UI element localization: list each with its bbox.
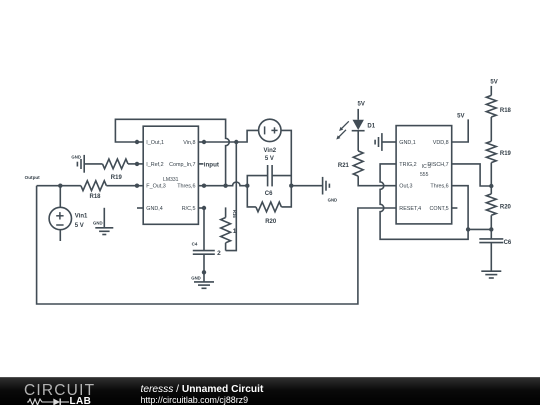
- svg-text:GND,4: GND,4: [146, 206, 162, 212]
- svg-text:CONT,5: CONT,5: [430, 206, 449, 212]
- capacitor C6 (right): [490, 229, 492, 239]
- wire block right node to ground: [291, 185, 322, 187]
- wire I_Out,1 top loop (line A): [115, 119, 229, 185]
- svg-text:GND: GND: [191, 275, 201, 280]
- capacitor C6 (middle): [267, 165, 269, 186]
- voltage source Vin1: [59, 186, 61, 208]
- node dot pin Thres,6: [202, 184, 206, 188]
- resistor R19 (left): [103, 159, 129, 169]
- wire R18-R19: [490, 117, 492, 141]
- resistor R19 (right): [486, 141, 496, 162]
- svg-text:I_Out,1: I_Out,1: [146, 140, 164, 146]
- svg-text:DISCH,7: DISCH,7: [427, 162, 448, 168]
- wire line B Vin8 to R16 bottom (hopped by Thres wire): [226, 142, 237, 251]
- resistor R21: [353, 151, 363, 176]
- svg-text:Vin1: Vin1: [75, 214, 88, 220]
- svg-text:Vin2: Vin2: [264, 148, 277, 154]
- svg-text:input: input: [204, 161, 219, 168]
- svg-text:GND: GND: [71, 154, 81, 159]
- svg-text:R18: R18: [500, 108, 512, 114]
- svg-text:LM331: LM331: [163, 177, 179, 183]
- ground (rotated left) at R19: [83, 155, 85, 173]
- LED emission arrows: [336, 121, 349, 139]
- svg-text:C6: C6: [504, 240, 512, 246]
- node dot pin F_Out,3: [135, 184, 139, 188]
- wire R/C,5 down to C4: [203, 208, 205, 251]
- node left of C6/R20 block: [245, 184, 249, 188]
- resistor R20 (right): [486, 194, 496, 215]
- svg-text:R/C,5: R/C,5: [182, 206, 196, 212]
- svg-text:RESET,4: RESET,4: [399, 206, 421, 212]
- node dot pin Vin,8: [202, 140, 206, 144]
- svg-text:Thres,6: Thres,6: [430, 184, 448, 190]
- svg-text:GND: GND: [328, 198, 338, 203]
- svg-text:R21: R21: [338, 163, 350, 169]
- wire R19-R20 with DISCH junction: [490, 163, 492, 194]
- resistor R16 (floating top): [225, 207, 227, 217]
- resistor R18 (left): [81, 181, 107, 191]
- footer url line: [141, 396, 249, 405]
- wire C4 to ground: [203, 254, 205, 272]
- wire gnd to R19: [84, 163, 102, 165]
- IC U2 LM331: [143, 126, 198, 224]
- resistor R18 (right): [490, 86, 492, 96]
- svg-text:Vin,8: Vin,8: [183, 140, 195, 146]
- node right of C6/R20 block: [289, 184, 293, 188]
- svg-text:5V: 5V: [457, 113, 464, 119]
- svg-text:2: 2: [217, 250, 221, 257]
- svg-text:D1: D1: [367, 123, 375, 129]
- IC IC3 555: [396, 126, 452, 224]
- wire C6 to ground: [490, 243, 492, 272]
- junction line A end on Thres wire: [223, 184, 227, 188]
- capacitor C4: [193, 250, 215, 252]
- svg-text:GND,1: GND,1: [399, 140, 415, 146]
- svg-text:R19: R19: [500, 151, 512, 157]
- wire R20 to bottom node: [490, 215, 492, 229]
- svg-text:5 V: 5 V: [265, 156, 274, 162]
- svg-text:R18: R18: [89, 194, 101, 200]
- LED D1: [357, 109, 359, 120]
- floating ground near Vin1: [103, 208, 105, 228]
- CircuitLab logo: [24, 383, 95, 399]
- node dot pin R/C,5: [202, 206, 206, 210]
- wire Thres,6 down to bottom node: [452, 186, 468, 230]
- svg-text:Out,3: Out,3: [399, 184, 412, 190]
- junction Thres node: [466, 227, 470, 231]
- wire Output node to R18: [37, 185, 81, 187]
- wire bottom branch to resistor R20: [247, 186, 256, 207]
- svg-text:C4: C4: [192, 241, 198, 246]
- junction line B on Vin8 wire: [234, 140, 238, 144]
- svg-text:R16: R16: [232, 210, 237, 218]
- wire DISCH,7 to chain node: [452, 164, 492, 186]
- wire Vin2+ to block right node: [281, 130, 291, 185]
- ground (rotated left) at GND,1: [382, 141, 396, 143]
- svg-text:5 V: 5 V: [75, 223, 84, 229]
- junction at ground: [202, 270, 206, 274]
- svg-text:5V: 5V: [358, 102, 365, 108]
- resistor R20 (middle): [256, 202, 282, 212]
- ground below C4: [203, 272, 205, 282]
- svg-text:GND: GND: [93, 221, 103, 226]
- svg-text:F_Out,3: F_Out,3: [146, 184, 165, 190]
- svg-text:1: 1: [233, 228, 237, 235]
- svg-text:R20: R20: [265, 219, 277, 225]
- voltage source Vin2: [259, 119, 281, 141]
- svg-text:555: 555: [420, 172, 429, 178]
- ground bottom right: [481, 270, 501, 272]
- svg-text:I_Ref,2: I_Ref,2: [146, 162, 163, 168]
- svg-text:5V: 5V: [490, 80, 497, 86]
- svg-text:R19: R19: [111, 175, 123, 181]
- wire Thres,6 to block left node with hop over line B: [204, 182, 247, 186]
- svg-text:TRIG,2: TRIG,2: [399, 162, 416, 168]
- pin stub CONT,5: [452, 207, 458, 209]
- svg-text:R20: R20: [500, 204, 512, 210]
- wire Output loop to RESET,4: [37, 186, 397, 304]
- junction Vin1 top: [58, 184, 62, 188]
- node dot pin I_Ref,2: [135, 162, 139, 166]
- node dot pin I_Out,1: [135, 140, 139, 144]
- LM331 pin stubs: [137, 141, 143, 143]
- svg-text:Thres,6: Thres,6: [177, 184, 195, 190]
- svg-text:C6: C6: [265, 191, 273, 197]
- wire top branch to capacitor C6: [247, 176, 267, 186]
- footer author line: [141, 385, 264, 395]
- wire TRIG,2 down and around to Thres node (hops Out,3 and RESET,4 wires): [380, 164, 468, 239]
- svg-text:Output: Output: [25, 175, 41, 180]
- wire VDD,8 to 5V flag: [452, 119, 469, 142]
- wire R21 to Out,3: [358, 176, 396, 186]
- svg-text:Comp_In,7: Comp_In,7: [169, 162, 195, 168]
- ground (rotated right): [322, 177, 324, 195]
- svg-text:VDD,8: VDD,8: [433, 140, 449, 146]
- wire Vin,8 to Vin2: [204, 130, 259, 142]
- wire bottom node pair: [468, 228, 491, 230]
